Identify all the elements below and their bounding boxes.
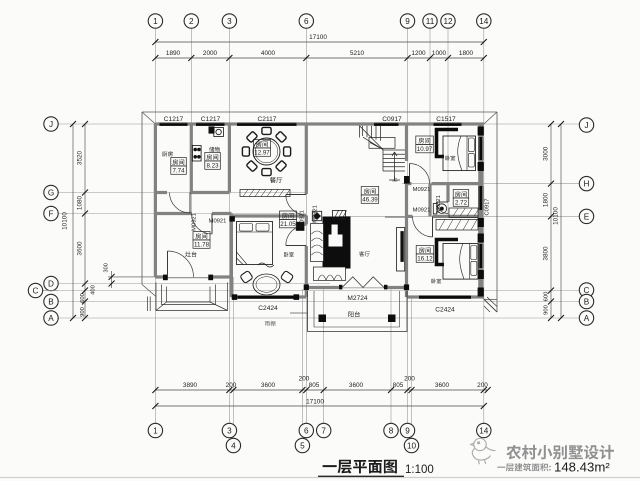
svg-text:G: G: [48, 188, 54, 197]
svg-text:14: 14: [479, 426, 489, 435]
svg-text:805: 805: [393, 382, 404, 389]
svg-text:C1217: C1217: [164, 116, 184, 123]
right bedroom wardrobe: [437, 240, 459, 265]
svg-text:M0921: M0921: [413, 187, 431, 193]
svg-text:M2724: M2724: [347, 295, 367, 302]
svg-text:17100: 17100: [306, 399, 324, 406]
left bedroom nightstand: [296, 222, 305, 231]
svg-text:12: 12: [443, 17, 453, 26]
svg-text:4: 4: [231, 441, 236, 450]
top dimension lines: [155, 42, 483, 58]
window labels top: [164, 116, 456, 123]
svg-text:16.12: 16.12: [417, 256, 433, 263]
svg-text:1200: 1200: [411, 50, 426, 57]
eaves outline: [142, 112, 497, 313]
door M0921 room 7.74 (G wall): [170, 193, 191, 214]
svg-text:2: 2: [189, 17, 194, 26]
svg-text:2000: 2000: [203, 50, 218, 57]
svg-text:600: 600: [544, 292, 550, 302]
door M0921 hall (axis9 wall): [410, 164, 430, 184]
svg-text:10100: 10100: [553, 207, 560, 225]
svg-text:D: D: [48, 279, 54, 288]
svg-text:B: B: [48, 297, 54, 306]
svg-text:1000: 1000: [432, 50, 447, 57]
svg-text:F: F: [48, 209, 53, 218]
svg-text:1800: 1800: [459, 50, 474, 57]
svg-text:C2117: C2117: [258, 116, 277, 123]
svg-text:C1217: C1217: [201, 116, 221, 123]
svg-text:5210: 5210: [350, 50, 365, 57]
watermark logo icon: [471, 438, 496, 464]
stove room 7.74: [192, 146, 201, 162]
window C2424 right bedroom: [419, 295, 471, 298]
svg-text:C0917: C0917: [484, 198, 490, 215]
right dimension lines: [551, 124, 561, 318]
svg-text:17100: 17100: [309, 34, 327, 41]
window C2424 left bedroom: [238, 295, 294, 298]
svg-text:B: B: [584, 297, 590, 306]
beam line hall: [385, 216, 405, 218]
svg-text:900: 900: [80, 307, 86, 317]
svg-text:C0917: C0917: [382, 116, 402, 123]
svg-text:3: 3: [227, 17, 232, 26]
door M0921 kitchen (F wall): [192, 214, 213, 235]
svg-text:10: 10: [407, 441, 417, 450]
svg-text:C: C: [33, 286, 39, 295]
svg-text:200: 200: [226, 382, 237, 389]
shoe cabinet with diamond: [312, 211, 321, 220]
top right bedroom bed: [443, 136, 476, 171]
room area labels: [171, 158, 187, 175]
svg-text:3800: 3800: [543, 246, 550, 261]
right exterior wall: [478, 124, 483, 297]
small 300 dimension near axis D: [108, 271, 155, 288]
horizontal axis grid lines: [42, 124, 579, 318]
svg-text:900: 900: [544, 305, 550, 315]
svg-text:10100: 10100: [62, 212, 69, 230]
svg-text:A: A: [584, 314, 590, 323]
windows on top wall: [160, 122, 188, 125]
left dimension lines: [73, 124, 85, 318]
svg-text:J: J: [49, 120, 53, 129]
axis bubbles bottom: [148, 423, 162, 437]
svg-text:6: 6: [304, 426, 309, 435]
column blocks on right wall: [478, 127, 484, 297]
svg-text:200: 200: [477, 382, 488, 389]
svg-text:1890: 1890: [166, 50, 181, 57]
kitchen entry door: [168, 251, 194, 277]
axis bubbles right: [579, 118, 593, 132]
svg-text:9: 9: [405, 426, 410, 435]
sink room 8.23: [209, 127, 224, 137]
svg-text:M0821: M0821: [436, 195, 442, 213]
toilet: [433, 204, 446, 214]
staircase: [360, 126, 405, 180]
svg-text:46.39: 46.39: [362, 197, 378, 204]
svg-text:10.97: 10.97: [417, 146, 433, 153]
living room sofa group: [311, 217, 351, 281]
svg-text:M0921: M0921: [209, 218, 227, 224]
door M0921 left bedroom (axis6 wall): [286, 225, 307, 246]
exterior and interior walls: [155, 124, 483, 297]
svg-text:3000: 3000: [543, 146, 550, 161]
right bedroom bed: [443, 244, 478, 280]
svg-text:8.23: 8.23: [206, 163, 219, 170]
sideboard: [240, 190, 290, 197]
svg-text:300: 300: [104, 263, 110, 272]
sill line across M2724 opening: [342, 287, 384, 289]
left bedroom bed: [237, 222, 273, 265]
bath vanity: [449, 208, 479, 218]
entry threshold + posts at kitchen porch: [167, 277, 209, 279]
top right bedroom wardrobe: [437, 130, 459, 157]
door M0921 right bedroom (E wall): [412, 216, 432, 237]
svg-text:C: C: [584, 286, 590, 295]
svg-text:3600: 3600: [435, 382, 450, 389]
right bedroom dresser: [436, 220, 478, 231]
svg-text:A: A: [48, 314, 54, 323]
bottom dimension lines: [155, 390, 487, 406]
svg-text:1800: 1800: [543, 192, 550, 207]
svg-text:21.05: 21.05: [280, 221, 296, 228]
svg-text:3600: 3600: [349, 382, 364, 389]
svg-text:200: 200: [404, 376, 415, 383]
door M0821 bath: [437, 202, 449, 214]
watermark text: [506, 445, 614, 460]
svg-text:3890: 3890: [183, 382, 198, 389]
svg-text:1080: 1080: [77, 195, 84, 210]
svg-text:C2424: C2424: [435, 306, 455, 313]
svg-text:8: 8: [389, 426, 394, 435]
svg-text:1: 1: [153, 426, 158, 435]
svg-text:805: 805: [309, 382, 320, 389]
svg-text:11.78: 11.78: [194, 242, 210, 249]
svg-text:400: 400: [91, 285, 97, 295]
door M0921 dining (axis6 wall): [286, 195, 307, 216]
svg-text:5: 5: [300, 441, 305, 450]
TV cabinet: [397, 228, 405, 272]
axis bubbles left: [44, 117, 58, 131]
dining table with chairs: [242, 127, 290, 175]
svg-text:2.72: 2.72: [455, 200, 468, 207]
axis bubbles top: [148, 14, 162, 28]
window/door labels bottom: [258, 295, 455, 313]
double door M2724 to balcony: [342, 277, 384, 288]
svg-text:3520: 3520: [77, 150, 84, 165]
room name texts: [162, 151, 173, 156]
corner posts: [230, 216, 410, 300]
left bedroom sitting group: [240, 263, 294, 295]
svg-text:M0921: M0921: [192, 213, 198, 231]
svg-text:4000: 4000: [261, 50, 276, 57]
svg-text:3600: 3600: [77, 241, 84, 256]
column block on axis9 wall at stair foot: [404, 176, 409, 184]
svg-text:7: 7: [321, 426, 326, 435]
svg-text:J: J: [584, 121, 588, 130]
svg-text:6: 6: [304, 17, 309, 26]
svg-text:148.43m²: 148.43m²: [554, 460, 610, 475]
svg-text:3600: 3600: [261, 382, 276, 389]
svg-text:M0921: M0921: [300, 210, 306, 228]
footer separator line: [0, 477, 640, 479]
svg-text:1:100: 1:100: [405, 464, 434, 476]
svg-text:9: 9: [405, 17, 410, 26]
plan title: [323, 460, 397, 474]
door labels: [192, 187, 491, 231]
side step right: [484, 297, 497, 312]
svg-text:M0921: M0921: [413, 208, 431, 214]
svg-text:1: 1: [153, 17, 158, 26]
svg-text:11: 11: [426, 17, 435, 26]
hatched armchair: [333, 210, 347, 219]
svg-text:E: E: [584, 212, 590, 221]
vertical axis grid lines: [155, 28, 483, 439]
entry porch steps: [148, 283, 228, 312]
svg-text:12.97: 12.97: [254, 150, 270, 157]
svg-text:H: H: [584, 180, 590, 189]
svg-text:600: 600: [80, 293, 86, 303]
svg-text:3: 3: [227, 426, 232, 435]
svg-text:C2424: C2424: [258, 305, 278, 312]
svg-text:14: 14: [479, 17, 489, 26]
svg-text:M0921: M0921: [313, 205, 319, 223]
svg-text:7.74: 7.74: [172, 168, 185, 175]
windows on right wall: [479, 137, 484, 160]
balcony: [308, 291, 408, 332]
svg-text:C1517: C1517: [436, 116, 456, 123]
